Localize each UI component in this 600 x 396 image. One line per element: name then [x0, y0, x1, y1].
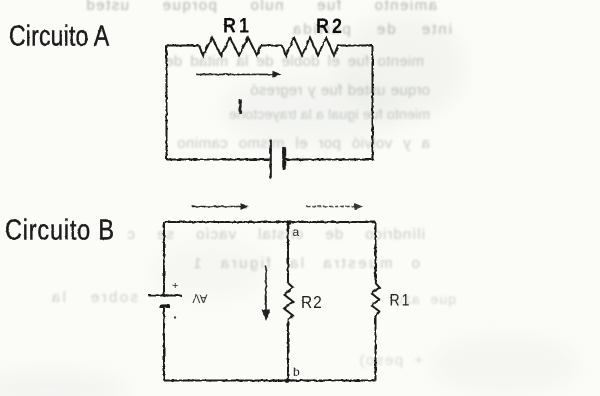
resistor R1 (zigzag, circuit A top)	[199, 38, 261, 56]
wire B middle branch lower	[287, 320, 289, 381]
wire A bottom-left segment	[167, 159, 270, 161]
current arrow I (circuit A)	[197, 71, 282, 78]
wire B left edge upper	[163, 222, 165, 295]
battery B short plate	[160, 304, 171, 308]
wire B top	[164, 221, 376, 223]
wire B left edge lower	[163, 306, 165, 381]
svg-text:R1: R1	[223, 14, 252, 38]
battery A long plate	[270, 140, 272, 180]
svg-text:AV: AV	[192, 292, 207, 306]
svg-text:b: b	[293, 365, 300, 379]
wire B bottom	[164, 380, 376, 382]
wire B right edge lower	[375, 316, 377, 381]
paper haze blobs	[335, 15, 465, 120]
resistor R2 (zigzag, circuit A top)	[282, 38, 338, 56]
wire A right edge	[372, 46, 374, 160]
battery A short plate	[282, 147, 286, 170]
wire A top-right segment	[338, 45, 373, 47]
svg-text:Circuito B: Circuito B	[5, 213, 115, 246]
svg-text:+: +	[172, 280, 178, 292]
svg-text:R2: R2	[301, 292, 323, 312]
battery B dot mark	[174, 316, 176, 318]
bleed-through mirrored text (back of page)	[85, 0, 437, 13]
wire A bottom-right segment	[286, 159, 373, 161]
resistor R1 (vertical zigzag, circuit B right)	[372, 283, 380, 316]
wire B right edge upper	[375, 222, 377, 283]
wire A top-left segment	[167, 45, 200, 47]
svg-text:a: a	[293, 225, 300, 239]
wire A left edge	[166, 46, 168, 160]
current arrow down (circuit B middle-left)	[262, 266, 271, 321]
svg-text:Circuito A: Circuito A	[9, 19, 110, 52]
svg-text:R2: R2	[316, 15, 345, 39]
node a junction dot	[286, 220, 291, 225]
current arrow above circuit B (right, fainter)	[307, 203, 364, 210]
resistor R2 (vertical zigzag, circuit B middle)	[284, 283, 293, 320]
wire A top-middle segment	[261, 45, 282, 47]
battery B long plate	[149, 294, 182, 296]
svg-text:R1: R1	[390, 291, 412, 309]
wire B middle branch upper	[287, 222, 289, 283]
label I	[239, 99, 242, 114]
node b junction dot	[284, 378, 289, 383]
current arrow above circuit B (left)	[192, 203, 249, 210]
